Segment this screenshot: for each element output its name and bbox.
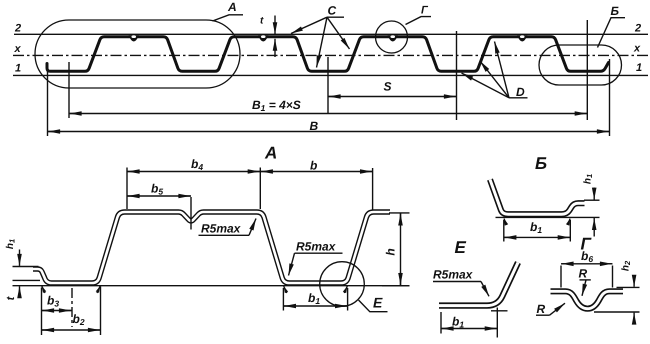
label A with leader [213,0,244,21]
stiffening dimple 1 [129,35,139,41]
dimension b1 (detail E) [441,308,508,338]
detail B sheet [490,180,585,215]
callout R5max upper [199,219,257,236]
dimension h1 (detail A) with t [5,239,410,300]
label G with leader [406,5,432,25]
dimension B [48,59,610,136]
svg-text:E: E [455,238,467,257]
svg-text:x: x [633,43,641,55]
dimension b6 [561,249,613,288]
dimension b [260,159,372,211]
dimension b3 [42,294,72,311]
svg-text:А: А [227,0,237,14]
svg-text:Б: Б [535,154,547,173]
label B with leader [598,4,626,48]
detail G sheet (dimple section) [551,291,624,308]
svg-text:R: R [579,267,588,281]
callout R5max lower [289,240,343,276]
svg-text:h1: h1 [583,174,595,184]
line 1 (bottom surface datum) [13,74,648,76]
svg-text:E: E [373,295,383,311]
dimension b5 [127,182,191,230]
dimension b2 [42,287,101,336]
detail A sheet (double line) [33,212,390,283]
svg-text:2: 2 [634,23,641,35]
svg-text:h1: h1 [5,239,17,249]
callout stadium A (left end) [35,20,240,88]
corner tangent arrows detail B [504,219,570,225]
dimension h1 (detail B) [496,174,600,237]
stiffening dimple 2 [258,35,268,41]
trough centerline (detail A) [71,288,73,327]
detail E sheet [439,263,518,306]
dimension h [382,213,410,286]
dimension b1 (detail B) [504,220,571,242]
callout R5max (detail E) [433,268,489,297]
stiffening dimple 3 [388,35,398,41]
callout circle E [320,262,365,307]
profile sheet cross-section (thick) [47,37,609,72]
dimension b4 [127,157,260,209]
callout R lower (detail G) [536,302,565,316]
svg-text:А: А [264,144,277,163]
label C with three arrows [291,4,350,68]
dimension t (sheet thickness) [260,16,275,58]
svg-text:h: h [384,248,398,255]
svg-text:R5max: R5max [296,240,337,254]
svg-text:D: D [516,85,525,99]
svg-text:S: S [384,80,392,94]
callout stadium B (right end) [539,45,622,85]
svg-text:1: 1 [636,62,642,74]
svg-text:C: C [328,4,337,18]
line 2 (top surface datum) [14,33,648,35]
svg-text:b: b [310,159,317,173]
corner tangent arrows detail A [42,286,348,293]
callout circle G (dimple) [376,21,408,53]
dimension b1 (detail A) [283,288,347,311]
svg-text:R5max: R5max [433,268,474,282]
dimension h2 [594,260,640,322]
label E with leader [359,295,388,312]
svg-text:Б: Б [611,4,620,18]
centerline x [13,54,648,56]
label D with three arrows [462,42,528,100]
callout R upper (detail G) [579,267,591,296]
svg-text:R: R [537,302,546,316]
svg-text:x: x [14,43,22,55]
svg-text:1: 1 [15,63,21,75]
dimension B1 = 4xS [69,20,587,120]
svg-text:h2: h2 [621,260,633,271]
svg-text:2: 2 [14,23,21,35]
svg-text:R5max: R5max [201,222,242,236]
stiffening dimple 4 [517,35,527,41]
svg-text:B1 = 4×S: B1 = 4×S [252,98,301,113]
dimension S [328,31,457,120]
